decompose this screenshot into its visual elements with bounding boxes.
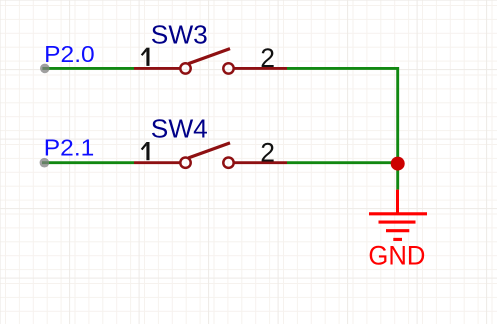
node P2.1 terminal dot <box>40 158 50 168</box>
wire junction down <box>396 164 399 190</box>
SW4 left contact circle <box>180 158 190 168</box>
GND bar 1 <box>369 212 427 215</box>
svg-text:GND: GND <box>368 241 425 271</box>
GND bar 4 <box>393 238 402 241</box>
node P2.0 terminal dot <box>40 64 50 74</box>
SW3 pin 1 lead <box>134 67 180 70</box>
svg-text:P2.0: P2.0 <box>44 41 95 67</box>
pin 1 label SW3 <box>141 48 150 66</box>
SW4 right contact circle <box>223 158 233 168</box>
wire SW3 pin 2 to corner and down to junction <box>287 68 398 163</box>
wire P2.1 to SW4 pin 1 <box>42 161 134 164</box>
switch SW3 <box>134 49 287 74</box>
GND bar 2 <box>379 221 416 224</box>
svg-text:P2.1: P2.1 <box>44 135 95 161</box>
SW3 lever <box>189 49 231 64</box>
svg-text:2: 2 <box>260 43 275 73</box>
GND stem <box>396 190 399 214</box>
SW4 pin 1 lead <box>134 161 180 164</box>
ground GND <box>369 190 427 240</box>
SW4 lever <box>189 143 231 158</box>
SW4 pin 2 lead <box>234 161 287 164</box>
wire P2.0 to SW3 pin 1 <box>42 67 134 70</box>
wire SW4 pin 2 to junction <box>287 161 398 164</box>
svg-text:2: 2 <box>260 137 275 167</box>
pin 1 label SW4 <box>141 142 150 160</box>
SW3 pin 2 lead <box>234 67 287 70</box>
SW3 left contact circle <box>180 63 190 73</box>
svg-text:SW3: SW3 <box>151 21 208 49</box>
svg-text:SW4: SW4 <box>151 116 208 144</box>
switch SW4 <box>134 143 287 168</box>
junction dot <box>391 157 405 171</box>
SW3 right contact circle <box>223 63 233 73</box>
GND bar 3 <box>386 229 409 232</box>
